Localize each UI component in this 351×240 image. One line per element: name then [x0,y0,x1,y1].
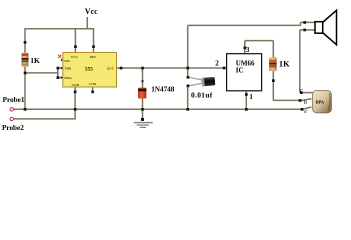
svg-text:DIS: DIS [64,59,70,63]
svg-text:GND: GND [72,83,80,87]
svg-text:CON: CON [89,82,97,86]
svg-text:1: 1 [249,93,253,101]
svg-text:THR: THR [64,67,72,71]
svg-text:1N4748: 1N4748 [151,86,175,94]
svg-text:c: c [300,88,303,94]
svg-text:0.01uf: 0.01uf [191,91,213,100]
svg-text:TRIG: TRIG [64,76,73,80]
svg-text:IC: IC [236,66,244,74]
svg-text:2: 2 [215,60,219,68]
svg-text:VCC: VCC [71,55,79,59]
svg-text:1K: 1K [279,60,290,69]
svg-text:Vcc: Vcc [85,7,98,16]
svg-text:RES: RES [90,55,96,59]
svg-text:b: b [304,100,307,106]
svg-text:BPA: BPA [316,100,324,105]
svg-text:Probe2: Probe2 [2,124,24,132]
svg-text:Probe1: Probe1 [3,96,25,104]
svg-text:1K: 1K [30,56,40,65]
svg-text:OUT: OUT [107,67,115,71]
svg-text:3: 3 [246,46,250,54]
svg-text:555: 555 [85,66,93,72]
svg-text:e: e [304,109,307,115]
